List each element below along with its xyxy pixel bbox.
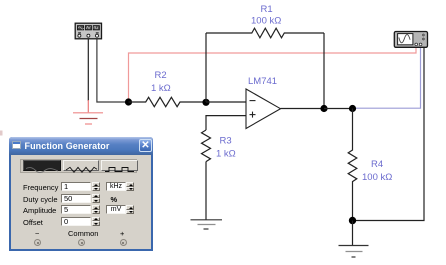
svg-text:R4: R4 — [371, 159, 383, 170]
ground under R4 — [339, 221, 369, 258]
svg-text:R3: R3 — [220, 136, 232, 147]
resistor R2 — [129, 97, 207, 106]
wire: node B to opamp inverting input — [206, 101, 246, 103]
label R1 value 100 kOhm — [251, 16, 281, 27]
waveform buttons groove — [20, 159, 137, 173]
label R3 — [220, 136, 232, 147]
ground under R3 — [191, 220, 223, 229]
wire: FG common terminal down — [87, 39, 89, 101]
label R2 — [155, 70, 167, 81]
svg-text:1 kΩ: 1 kΩ — [216, 149, 236, 160]
svg-text:100 kΩ: 100 kΩ — [362, 172, 392, 183]
op-amp U1 LM741 — [246, 89, 281, 129]
common terminal — [68, 229, 98, 238]
node A junction — [125, 98, 132, 105]
function generator dialog window — [9, 137, 153, 251]
node B junction — [202, 99, 209, 106]
label R2 value 1 kOhm — [151, 83, 171, 94]
resistor R4 — [348, 109, 357, 221]
triangle button — [63, 160, 99, 171]
resistor R3 — [202, 130, 211, 162]
svg-text:LM741: LM741 — [248, 76, 277, 87]
label R4 value 100 kOhm — [362, 172, 392, 183]
Offset row — [23, 218, 43, 227]
minus terminal — [35, 229, 39, 238]
square button — [101, 160, 138, 171]
R4 bottom node junction — [349, 217, 356, 224]
R4 top node junction — [349, 105, 356, 112]
wire: node B up to R1 — [205, 33, 207, 102]
dialog title bar — [9, 137, 153, 155]
output node junction — [320, 105, 327, 112]
wire: red probe A from scope to FG output node — [129, 48, 417, 103]
wire: opamp output to output node — [281, 108, 325, 110]
wire: opamp non-inverting input to R3 — [206, 116, 246, 130]
wire: FG plus terminal to node A — [97, 39, 129, 102]
label R1 — [261, 4, 273, 15]
oscilloscope instrument icon XSC1 — [394, 32, 427, 48]
sine button (pressed) — [23, 160, 61, 171]
Frequency row — [23, 183, 58, 192]
wire: R1 right side down to output node — [323, 33, 325, 109]
plus terminal — [120, 229, 124, 238]
svg-text:100 kΩ: 100 kΩ — [251, 16, 281, 27]
wire: blue probe B from scope to opamp output node — [354, 48, 421, 109]
label R4 — [371, 159, 383, 170]
Amplitude row — [23, 206, 56, 215]
wire: output node to R4 node — [324, 108, 353, 110]
label LM741 — [248, 76, 277, 87]
Duty cycle row — [23, 195, 58, 204]
wire: R3 bottom to ground — [205, 162, 207, 220]
svg-text:1 kΩ: 1 kΩ — [151, 83, 171, 94]
svg-text:R2: R2 — [155, 70, 167, 81]
resistor R1 — [206, 28, 324, 38]
label R3 value 1 kOhm — [216, 149, 236, 160]
svg-text:R1: R1 — [261, 4, 273, 15]
ground (red) under function generator — [73, 100, 103, 124]
wire: scope ground down and to R4 bottom node — [356, 48, 424, 221]
function generator instrument icon XFG1 — [75, 23, 101, 39]
